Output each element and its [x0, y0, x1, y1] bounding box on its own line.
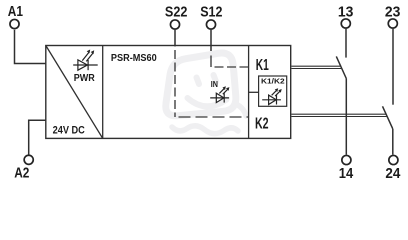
LED PWR arrowheads	[87, 50, 95, 55]
svg-text:13: 13	[338, 4, 354, 21]
svg-text:IN: IN	[211, 80, 218, 89]
svg-text:PSR-MS60: PSR-MS60	[111, 53, 157, 64]
svg-text:K2: K2	[255, 116, 269, 133]
LED IN	[210, 88, 229, 103]
terminal S12	[206, 20, 215, 29]
divider power section	[102, 46, 104, 139]
terminal 23	[388, 19, 397, 28]
dashed wire logic upper	[211, 66, 249, 68]
contact blade 13-14	[336, 56, 346, 78]
svg-text:23: 23	[385, 4, 401, 21]
wire A1 to box	[15, 30, 46, 64]
wire S22	[174, 30, 176, 46]
svg-text:24: 24	[385, 165, 401, 182]
indicator box K1/K2	[259, 76, 287, 106]
dashed wire S22 internal	[174, 46, 176, 117]
terminal A2	[24, 155, 33, 164]
actuator link K2	[291, 114, 387, 116]
power supply diagonal	[46, 46, 103, 139]
wire 23	[392, 29, 394, 105]
terminal 14	[342, 155, 351, 164]
svg-text:24V DC: 24V DC	[53, 124, 85, 136]
dashed wire logic lower	[175, 116, 249, 118]
wire 14	[345, 79, 347, 155]
contact blade 23-24	[383, 106, 393, 129]
dashed wire S12 internal	[210, 56, 212, 68]
wire S12	[210, 30, 212, 51]
svg-text:PWR: PWR	[74, 73, 95, 84]
LED IN arrowheads	[223, 86, 230, 91]
divider relay section	[248, 46, 250, 139]
svg-text:A1: A1	[8, 3, 23, 20]
svg-text:K1/K2: K1/K2	[261, 76, 285, 85]
wire 13	[345, 29, 347, 58]
terminal S22	[170, 20, 179, 29]
LED K1/K2	[262, 90, 281, 105]
wire A2 to box	[29, 120, 46, 154]
terminal 24	[389, 155, 398, 164]
svg-text:S12: S12	[200, 4, 222, 21]
LED PWR	[73, 52, 98, 70]
svg-text:S22: S22	[165, 4, 188, 21]
watermark logo	[166, 53, 246, 134]
svg-text:A2: A2	[14, 164, 29, 181]
LED K1/K2 arrowheads	[275, 88, 282, 93]
svg-text:14: 14	[339, 165, 354, 182]
wire logic to K1/K2 indicator	[249, 91, 259, 93]
wire 24	[392, 129, 394, 155]
svg-text:K1: K1	[256, 57, 269, 74]
terminal A1	[10, 19, 19, 28]
main enclosure box	[46, 46, 291, 139]
actuator link K1	[291, 66, 342, 68]
terminal 13	[341, 19, 350, 28]
